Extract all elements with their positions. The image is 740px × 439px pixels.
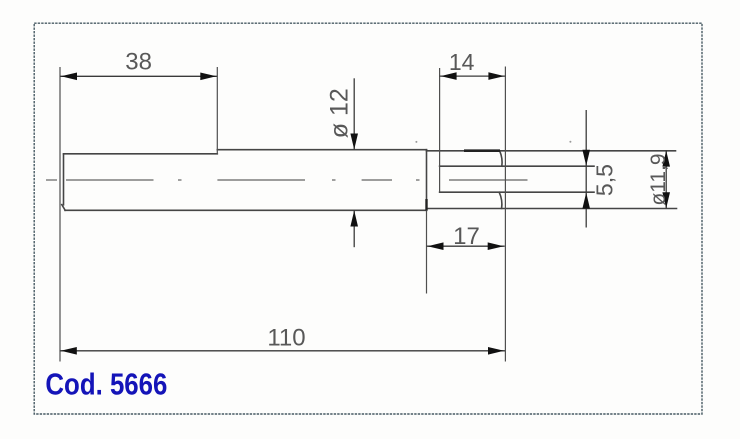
svg-text:Cod. 5666: Cod. 5666 xyxy=(45,367,167,402)
5,5 down / up xyxy=(582,150,590,166)
svg-text:ø 12: ø 12 xyxy=(325,88,353,138)
dia11.9 up / down xyxy=(662,151,670,167)
svg-text:110: 110 xyxy=(267,325,305,352)
mid-section top edge xyxy=(217,149,426,151)
thick dark segment on top edge xyxy=(464,149,500,152)
14 left / right xyxy=(441,72,457,80)
step at end of mid section xyxy=(426,150,428,211)
svg-text:38: 38 xyxy=(125,49,152,76)
bottom edge (38 + mid section) xyxy=(65,209,427,211)
part outline xyxy=(62,150,677,211)
dimension lines xyxy=(60,76,666,351)
38-section top edge xyxy=(64,153,218,155)
38 left / right xyxy=(61,73,77,81)
svg-text:5,5: 5,5 xyxy=(592,164,618,196)
svg-text:17: 17 xyxy=(453,223,480,250)
slot top line xyxy=(440,165,594,167)
110 left / right xyxy=(61,347,77,355)
slot runout curve lower xyxy=(499,192,502,208)
17 left / right xyxy=(428,242,444,250)
left end face xyxy=(63,154,65,205)
svg-text:14: 14 xyxy=(449,49,475,75)
right-section top edge xyxy=(427,150,676,152)
left bottom chamfer xyxy=(62,205,65,211)
extension lines xyxy=(60,67,505,362)
scan speck xyxy=(415,141,417,143)
dark corner at step bottom xyxy=(425,199,427,211)
scan speck xyxy=(569,141,571,143)
right-section bottom edge xyxy=(427,208,677,210)
slot bottom line xyxy=(440,191,594,193)
arrowheads xyxy=(61,72,670,354)
dimension texts xyxy=(125,49,670,352)
svg-text:ø11,9: ø11,9 xyxy=(647,153,670,205)
centerline xyxy=(46,179,528,181)
slot runout curve upper xyxy=(500,151,502,166)
dia12 down / up xyxy=(350,134,358,150)
